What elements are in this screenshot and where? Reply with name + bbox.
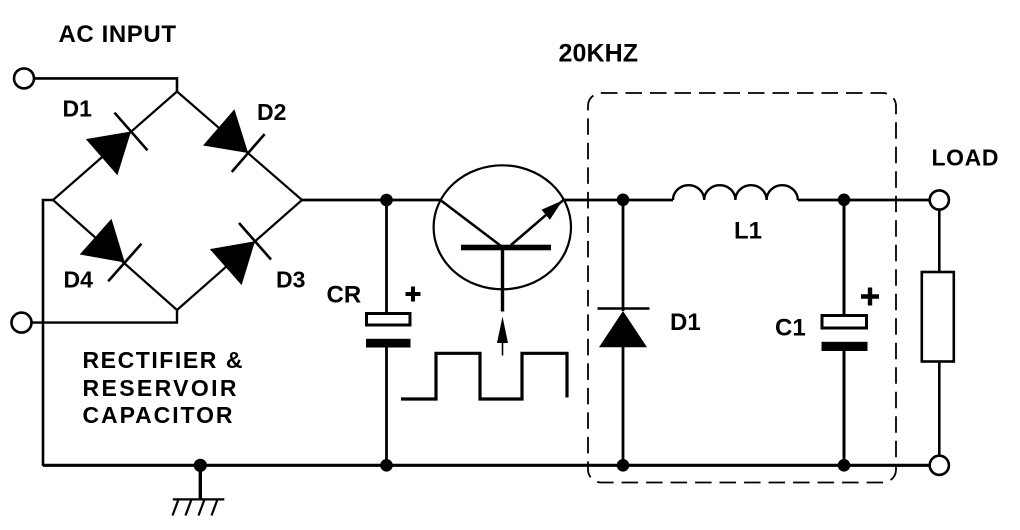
wire freewheel diode top lead [622,200,625,311]
svg-text:RECTIFIER &: RECTIFIER & [83,347,243,373]
inductor L1 [673,185,798,200]
resistor load [922,272,954,362]
bridge diode D3 [210,223,271,285]
svg-text:AC INPUT: AC INPUT [59,21,177,48]
label C1 plus [861,288,879,306]
capacitor CR [366,314,411,348]
wire bridge diamond edges [53,92,302,311]
drive waveform square wave [401,353,567,399]
ground [173,465,225,515]
bridge diode D1 [86,113,148,176]
bridge diode D4 [80,219,142,282]
transistor Q1 base bar [461,245,551,251]
node CR bottom junction [380,459,393,472]
node diode D1 bottom junction [617,459,630,472]
node diode D1 top junction [617,194,630,207]
dashed converter box [588,93,896,483]
wire CR bottom lead [385,348,388,467]
capacitor C1 [822,316,868,352]
wire bridge right vertex to transistor [302,199,441,202]
terminal AC input top [14,68,34,88]
transistor Q1 base lead [501,250,504,312]
terminal load top [930,190,949,209]
transistor Q1 emitter lead [511,201,563,245]
svg-text:L1: L1 [734,218,762,245]
wire inductor to C1 junction [798,199,930,202]
svg-text:CAPACITOR: CAPACITOR [83,402,233,428]
wire CR top lead [385,200,388,314]
node ground junction [194,459,207,472]
wire transistor to inductor section [562,199,673,202]
svg-text:D4: D4 [64,267,94,293]
svg-text:D1: D1 [670,309,701,336]
svg-text:D2: D2 [257,99,286,125]
svg-text:LOAD: LOAD [932,145,999,171]
svg-text:RESERVOIR: RESERVOIR [83,375,237,401]
svg-text:CR: CR [327,282,362,309]
wire C1 bottom lead [843,351,846,466]
svg-text:20KHZ: 20KHZ [559,40,639,68]
wire C1 top lead [843,200,846,315]
transistor Q1 emitter arrowhead [542,201,563,220]
bridge diode D2 [203,109,265,172]
svg-text:D1: D1 [63,96,93,122]
wire AC top to bridge [34,78,177,92]
label rectifier caption [83,347,243,428]
wire bridge left vertex to left rail [43,200,53,466]
wire load bottom lead [938,362,941,456]
drive signal arrow into base [497,317,508,356]
node CR top junction [380,194,393,207]
terminal AC input bottom [12,313,32,333]
node C1 bottom junction [838,459,851,472]
node C1 top junction [838,194,851,207]
wire AC bottom to bridge [32,309,177,323]
transistor Q1 body circle [434,165,571,289]
label CR plus [406,287,421,302]
wire bottom rail [43,464,930,467]
svg-text:D3: D3 [276,267,305,293]
transistor Q1 collector lead [441,201,501,247]
diode D1 freewheel [598,309,650,348]
svg-text:C1: C1 [775,315,806,342]
wire freewheel diode bottom lead [622,347,625,466]
wire load top lead [938,210,941,272]
terminal load bottom [930,456,949,475]
